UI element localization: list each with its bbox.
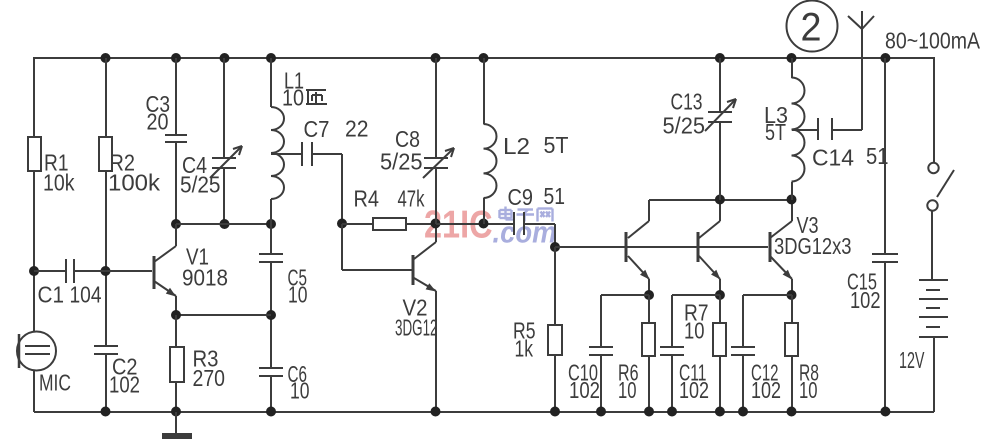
resistor R8 <box>785 295 819 403</box>
label 80~100mA <box>885 28 981 54</box>
wire R2 to C2 <box>105 171 107 346</box>
node L3 top <box>787 53 797 63</box>
wire V1 collector node <box>176 223 271 225</box>
wire R5 top <box>554 247 556 325</box>
svg-text:102: 102 <box>751 377 781 403</box>
wire C13 bottom <box>719 122 721 200</box>
resistor R1 <box>28 137 75 196</box>
transistor V3 unit 2 <box>698 200 720 295</box>
svg-text:47k: 47k <box>398 186 425 212</box>
wire R3 top <box>175 315 177 347</box>
inductor L2 <box>484 124 569 198</box>
svg-text:C13: C13 <box>671 89 703 115</box>
node C3 top <box>171 53 181 63</box>
wire MIC to ground rail <box>33 370 35 412</box>
transistor V1 <box>154 224 228 315</box>
resistor R2 <box>99 137 161 196</box>
resistor R6 <box>618 295 655 403</box>
wire C12 bottom <box>742 355 744 412</box>
wire R8 bottom <box>791 356 793 412</box>
wire C10 bottom <box>600 355 602 412</box>
resistor R5 <box>513 318 562 362</box>
trimmer capacitor C8 <box>380 126 454 178</box>
svg-text:10k: 10k <box>43 170 75 196</box>
svg-text:MIC: MIC <box>39 370 71 396</box>
wire switch to battery <box>931 210 933 280</box>
capacitor C6 <box>259 361 310 404</box>
node R5 bottom <box>550 407 560 417</box>
node emitter wire right <box>266 310 276 320</box>
svg-text:102: 102 <box>679 377 709 403</box>
capacitor C5 <box>259 224 308 308</box>
node C13 bottom <box>715 195 725 205</box>
trimmer capacitor C4 <box>180 146 242 198</box>
node C11 bottom <box>667 407 677 417</box>
capacitor C12 <box>731 347 781 403</box>
wire C12 top <box>742 295 744 347</box>
svg-text:3DG12: 3DG12 <box>395 315 438 341</box>
svg-text:2: 2 <box>801 6 822 50</box>
svg-text:100k: 100k <box>108 170 161 196</box>
wire V1 emitter junction <box>176 314 271 316</box>
wire L1 top <box>270 58 272 107</box>
node C15 top <box>880 53 890 63</box>
wire V3a emitter to C10 <box>601 294 649 296</box>
ground <box>162 412 192 439</box>
svg-text:5T: 5T <box>765 119 786 145</box>
capacitor C3 <box>146 91 188 142</box>
node L1 top <box>266 53 276 63</box>
wire R6 bottom <box>648 356 650 412</box>
wire R7 bottom <box>719 356 721 412</box>
svg-text:102: 102 <box>850 287 881 313</box>
node C8 top <box>431 53 441 63</box>
transistor V3 unit 1 <box>626 200 650 295</box>
capacitor C14 <box>812 118 889 171</box>
transistor V2 <box>395 224 438 412</box>
svg-text:R4: R4 <box>354 186 380 212</box>
capacitor C9 <box>508 183 566 235</box>
svg-text:10: 10 <box>288 282 308 308</box>
svg-text:C7: C7 <box>304 116 330 142</box>
wire switch top <box>933 57 935 163</box>
battery GB 12V <box>899 280 948 373</box>
svg-text:10: 10 <box>290 378 310 404</box>
svg-text:104: 104 <box>70 282 102 308</box>
node C12 bottom <box>738 407 748 417</box>
svg-text:5T: 5T <box>544 132 569 158</box>
wire R5 bottom <box>554 355 556 412</box>
switch S <box>927 163 954 211</box>
svg-text:1k: 1k <box>515 336 534 362</box>
trimmer capacitor C13 <box>663 89 737 139</box>
wire C11 top <box>671 295 673 347</box>
node V2 collector <box>431 219 441 229</box>
wire L2 bottom <box>483 198 485 224</box>
svg-text:270: 270 <box>193 365 226 391</box>
capacitor C2 <box>94 346 140 398</box>
wire C2 bottom <box>105 354 107 412</box>
node V3a emitter <box>644 290 654 300</box>
svg-text:5/25: 5/25 <box>380 149 423 175</box>
wire top supply rail <box>34 57 934 59</box>
wire C8 bottom <box>435 168 437 224</box>
wire battery bottom <box>933 337 935 412</box>
node V3c emitter <box>787 290 797 300</box>
node C4 top <box>220 53 230 63</box>
wire C14 to antenna <box>832 29 862 130</box>
wire C6 bottom <box>270 376 272 412</box>
svg-text:20: 20 <box>147 109 169 135</box>
capacitor C7 <box>302 116 369 167</box>
wire R1 top <box>33 57 35 137</box>
wire V3 base bus <box>555 246 768 248</box>
node L2 top <box>479 53 489 63</box>
node R3 bottom <box>171 407 181 417</box>
node R8 bottom <box>787 407 797 417</box>
node R4 left <box>337 219 347 229</box>
svg-text:10: 10 <box>684 318 705 344</box>
wire R1 to MIC <box>33 171 35 332</box>
svg-text:51: 51 <box>544 183 566 209</box>
node R7 bottom <box>715 407 725 417</box>
node C4 bottom <box>220 219 230 229</box>
wire C11 bottom <box>671 355 673 412</box>
svg-text:10: 10 <box>282 85 304 111</box>
svg-text:102: 102 <box>109 372 140 398</box>
wire V2 base <box>342 224 412 270</box>
wire V1 base <box>106 270 152 272</box>
node C1/R2/base junction <box>101 266 111 276</box>
wire L3 tap <box>792 129 818 131</box>
wire C1 right <box>74 270 106 272</box>
wire R2 top <box>105 58 107 137</box>
marker circled 2 <box>787 1 838 52</box>
wire V3b emitter to C11 <box>672 294 720 296</box>
node V3b emitter <box>715 290 725 300</box>
transistor V3 unit 3 <box>770 200 852 295</box>
wire C15 top <box>884 58 886 254</box>
antenna <box>848 11 874 29</box>
microphone MIC <box>17 332 71 396</box>
wire C7 right <box>312 154 342 224</box>
resistor R4 <box>342 186 436 231</box>
wire C3 bottom <box>175 142 177 224</box>
wire C9 right <box>524 224 555 247</box>
wire bottom ground rail <box>34 411 934 413</box>
node L1 bottom <box>266 219 276 229</box>
wire C4 bottom <box>223 168 225 224</box>
svg-text:3DG12x3: 3DG12x3 <box>774 233 852 259</box>
wire collector to C9 <box>436 223 514 225</box>
wire C1 left <box>34 270 66 272</box>
capacitor C11 <box>660 347 709 403</box>
watermark (decorative) <box>424 204 557 250</box>
wire C5 to C6 <box>270 262 272 368</box>
wire L2 top <box>483 58 485 124</box>
svg-text:5/25: 5/25 <box>180 172 221 198</box>
node C3 bottom <box>171 219 181 229</box>
node V1 emitter <box>171 310 181 320</box>
wire V3 collector bus <box>649 199 792 201</box>
node C2 bottom <box>101 407 111 417</box>
svg-text:80~100mA: 80~100mA <box>885 28 981 54</box>
svg-text:C14: C14 <box>812 145 854 171</box>
wire C15 bottom <box>884 262 886 412</box>
node L2 bottom <box>479 219 489 229</box>
node V2 emitter bottom <box>431 407 441 417</box>
svg-text:10: 10 <box>618 377 637 403</box>
wire C13 top <box>719 58 721 112</box>
wire C4 top <box>223 58 225 158</box>
node C15 bottom <box>880 407 890 417</box>
node C13 top <box>715 53 725 63</box>
capacitor C15 <box>847 254 898 313</box>
capacitor C1 <box>38 259 102 308</box>
svg-text:L2: L2 <box>503 133 530 159</box>
wire L1 bottom <box>270 199 272 224</box>
svg-text:10: 10 <box>799 377 818 403</box>
svg-text:12V: 12V <box>899 347 925 373</box>
svg-text:9018: 9018 <box>182 265 228 291</box>
node C10 bottom <box>596 407 606 417</box>
node R6 bottom <box>644 407 654 417</box>
svg-text:C1: C1 <box>38 282 65 308</box>
node R2 top <box>101 53 111 63</box>
wire L3 top <box>791 58 793 78</box>
wire L3 bottom <box>791 182 793 200</box>
wire R3 bottom <box>175 382 177 412</box>
wire C8 top <box>435 58 437 158</box>
inductor L3 <box>764 78 805 182</box>
capacitor C10 <box>568 347 613 403</box>
svg-text:C9: C9 <box>508 184 534 210</box>
wire V3c emitter to C12 <box>743 294 792 296</box>
label L1 turns CJK zha <box>306 90 327 104</box>
svg-text:102: 102 <box>569 377 600 403</box>
svg-text:5/25: 5/25 <box>663 113 706 139</box>
wire L1 tap <box>271 153 302 155</box>
svg-text:22: 22 <box>345 116 369 142</box>
node base bus left <box>550 242 560 252</box>
node C1 left <box>29 266 39 276</box>
wire C3 top <box>175 58 177 135</box>
node C6 bottom <box>266 407 276 417</box>
node L3 bottom <box>787 195 797 205</box>
wire C10 top <box>600 295 602 347</box>
resistor R3 <box>170 346 225 392</box>
resistor R7 <box>684 295 726 356</box>
inductor L1 <box>271 68 304 200</box>
